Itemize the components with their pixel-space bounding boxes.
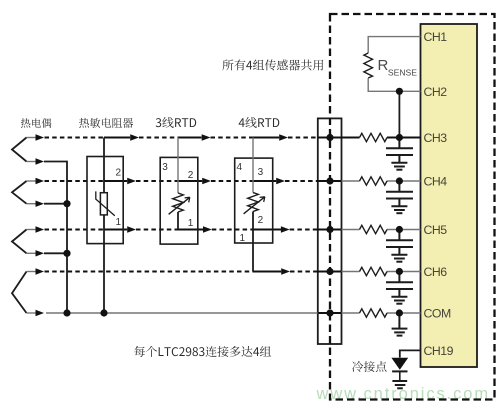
label 每个LTC2983连接多达4组 — [134, 346, 271, 357]
svg-text:SENSE: SENSE — [388, 67, 417, 77]
wire 3-wire RTD bottom to CH5 — [177, 212, 179, 230]
wire CH4 bus — [45, 178, 342, 185]
wire thermistor bottom to COM — [103, 215, 105, 313]
wire CH5 row (connector to pin) — [342, 229, 421, 231]
connector J1 — [318, 118, 342, 344]
wire CH2 node to CH3 node — [398, 91, 400, 137]
ground (cold junction) — [392, 381, 407, 388]
wire CH19 to cold junction diode — [400, 350, 421, 357]
LTC2983 dashed boundary — [330, 14, 495, 400]
svg-text:3: 3 — [258, 167, 264, 178]
resistor R7 (CH6 protection) — [360, 267, 388, 275]
resistor R4 (CH3 protection) — [360, 133, 388, 141]
4-wire RTD box — [235, 158, 273, 243]
wire thermistor feed from CH3/CH4 — [103, 138, 105, 193]
svg-text:2: 2 — [258, 215, 264, 226]
ground (COM) — [392, 315, 408, 336]
wire TC3 stub — [44, 252, 67, 254]
wire CH5 bus — [45, 226, 342, 233]
capacitor C1 + ground (CH3) — [386, 139, 413, 170]
wire CH6 row (connector to pin) — [342, 271, 421, 273]
svg-text:CH6: CH6 — [424, 265, 448, 279]
svg-text:2: 2 — [188, 170, 194, 181]
IC block (yellow channel bank) — [421, 24, 478, 367]
label 所有4组传感器共用 — [222, 59, 323, 70]
label R_SENSE — [378, 57, 418, 78]
wire 4-wire RTD feed (gray) — [252, 138, 254, 193]
label 热敏电阻器 — [79, 118, 133, 128]
junction dots (left return bus) — [63, 200, 107, 317]
svg-text:CH4: CH4 — [424, 175, 448, 189]
RTD sensor R3 (zigzag with arrow) — [244, 193, 265, 214]
thermocouple TC3 — [12, 226, 44, 256]
capacitor C3 + ground (CH5) — [386, 231, 413, 262]
wire 4-wire RTD bottom to CH5/CH6 — [252, 212, 254, 272]
label 4线RTD — [239, 117, 280, 128]
wire TC1 negative lead to return bus — [44, 162, 67, 314]
thermocouple TC1 — [12, 134, 44, 164]
svg-text:CH1: CH1 — [424, 30, 448, 44]
label 热电偶 — [21, 118, 52, 128]
wire R_SENSE to CH2 — [368, 78, 420, 91]
thermocouple TC4 — [12, 268, 44, 316]
svg-text:1: 1 — [240, 233, 246, 244]
capacitor C4 + ground (CH6) — [386, 273, 413, 304]
svg-text:R: R — [378, 57, 389, 74]
junction dots (connector) — [326, 134, 333, 317]
label 冷接点 — [352, 361, 386, 372]
svg-text:CH5: CH5 — [424, 223, 448, 237]
label 3线RTD — [156, 117, 197, 128]
wire CH3 bus — [45, 134, 342, 141]
wire CH4 row (connector to pin) — [342, 180, 421, 182]
svg-text:2: 2 — [116, 168, 122, 179]
thermistor box — [87, 157, 123, 244]
svg-text:CH2: CH2 — [424, 85, 448, 99]
wire TC2 stub — [44, 203, 67, 205]
svg-text:4: 4 — [237, 162, 243, 173]
svg-text:CH3: CH3 — [424, 131, 448, 145]
wire 3-wire RTD feed (gray) — [177, 138, 179, 194]
RTD sensor R2 (zigzag with arrow) — [169, 193, 190, 214]
wire CH1 to R_SENSE — [368, 37, 420, 53]
wire COM row (connector to pin) — [342, 312, 421, 314]
wire COM return line — [46, 312, 342, 314]
svg-text:CH19: CH19 — [424, 344, 454, 358]
junction dots (channel nodes) — [396, 88, 403, 317]
3-wire RTD box — [160, 157, 198, 244]
wire CH3 row (connector to pin) — [342, 137, 421, 139]
svg-text:COM: COM — [424, 307, 451, 321]
thermistor RT1 — [96, 191, 115, 215]
svg-text:1: 1 — [116, 217, 122, 228]
diode D1 (cold junction) — [391, 358, 408, 381]
thermocouple TC2 — [12, 178, 44, 207]
resistor R8 (COM protection) — [360, 309, 388, 317]
resistor R_SENSE — [364, 53, 373, 78]
wire CH6 bus — [45, 268, 342, 275]
svg-text:3: 3 — [162, 162, 168, 173]
svg-text:1: 1 — [188, 218, 194, 229]
resistor R5 (CH4 protection) — [360, 177, 388, 185]
capacitor C2 + ground (CH4) — [386, 183, 413, 214]
resistor R6 (CH5 protection) — [360, 225, 388, 233]
